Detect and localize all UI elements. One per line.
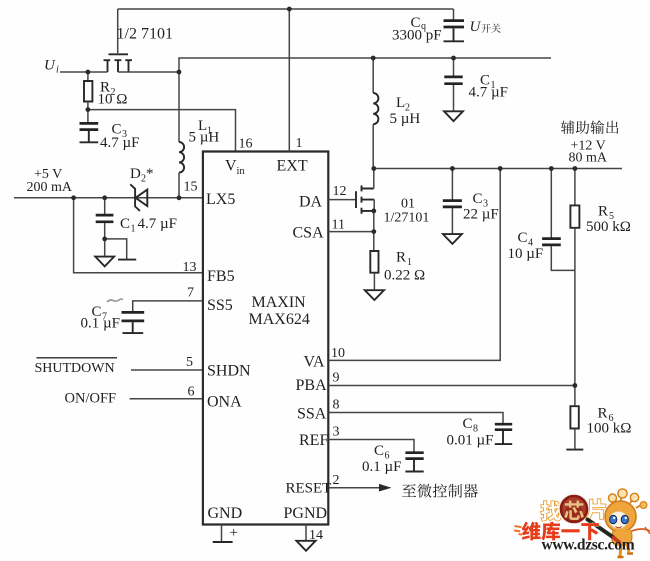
IC U1 MAX624 body xyxy=(203,152,328,525)
svg-text:10 Ω: 10 Ω xyxy=(98,92,128,108)
svg-text:U: U xyxy=(470,19,482,35)
wire L1 to LX5 node xyxy=(178,173,180,198)
svg-text:4.7 µF: 4.7 µF xyxy=(100,135,140,151)
wire C1 node to earth bar xyxy=(105,239,127,259)
svg-text:PGND: PGND xyxy=(284,505,328,522)
transistor 1/2 7101 source contact xyxy=(104,60,111,72)
wire Ui input xyxy=(60,71,108,73)
arrow to microcontroller xyxy=(379,484,392,492)
svg-text:3: 3 xyxy=(333,425,340,440)
transistor Q1 source contact xyxy=(362,208,374,214)
svg-text:MAX624: MAX624 xyxy=(249,311,310,328)
resistor R6 body xyxy=(570,406,578,428)
svg-text:11: 11 xyxy=(332,218,345,233)
capacitor C7 bottom terminal xyxy=(123,322,144,333)
mascot mouth xyxy=(616,527,622,528)
inductor L2 xyxy=(373,93,378,124)
wire pin9 PBA xyxy=(329,385,575,387)
transistor Q1 middle contact xyxy=(362,197,375,203)
node 7101 drain xyxy=(177,70,182,75)
svg-text:12: 12 xyxy=(333,184,347,199)
svg-text:GND: GND xyxy=(208,505,243,522)
svg-text:0.1 µF: 0.1 µF xyxy=(81,316,121,332)
transistor Q1 gate bar xyxy=(355,191,357,208)
svg-text:9: 9 xyxy=(333,371,340,386)
svg-text:www.dzsc.com: www.dzsc.com xyxy=(542,537,635,554)
svg-text:C: C xyxy=(463,416,473,432)
svg-text:22 µF: 22 µF xyxy=(463,207,499,223)
mascot face xyxy=(609,511,628,528)
svg-text:ONA: ONA xyxy=(207,394,242,411)
diode D2 cathode zener bar xyxy=(130,184,140,211)
svg-text:500 kΩ: 500 kΩ xyxy=(586,219,631,235)
ground triangle below PGND xyxy=(296,541,315,551)
svg-text:10 µF: 10 µF xyxy=(508,246,544,262)
svg-text:2: 2 xyxy=(333,473,340,488)
logo char zhao xyxy=(541,501,561,521)
svg-text:0.01 µF: 0.01 µF xyxy=(447,433,494,449)
logo char pian xyxy=(587,499,605,519)
svg-text:D: D xyxy=(130,166,141,182)
magnifier circle xyxy=(561,496,587,522)
ground triangle below R1 xyxy=(365,290,384,300)
wire C4 bottom to divider xyxy=(551,246,575,270)
capacitor C3 input bypass stub xyxy=(87,110,89,122)
wire ONA xyxy=(130,398,203,400)
svg-text:4.7 µF: 4.7 µF xyxy=(469,85,509,101)
ground triangle below C1 xyxy=(95,257,114,267)
capacitor C1 aux stub xyxy=(453,58,455,76)
earth bar near C1 xyxy=(118,259,136,261)
wire GND stub xyxy=(221,525,223,542)
svg-text:0.1 µF: 0.1 µF xyxy=(362,459,402,475)
svg-text:EXT: EXT xyxy=(277,158,308,175)
watermark dzsc logo xyxy=(514,489,650,557)
capacitor C4 stub xyxy=(550,169,552,238)
node C1 low top xyxy=(102,195,107,200)
svg-text:RESET: RESET xyxy=(286,481,332,497)
svg-text:*: * xyxy=(146,166,154,182)
wire VA riser xyxy=(329,169,501,361)
wire Q1 source down to CSA node xyxy=(373,211,375,251)
node C1 aux top xyxy=(451,56,456,61)
node rail C4 xyxy=(549,166,554,171)
svg-text:ON/OFF: ON/OFF xyxy=(65,391,117,407)
wire pin11 CSA xyxy=(329,231,374,233)
mascot head shell xyxy=(605,501,636,532)
node rail C3 xyxy=(450,166,455,171)
svg-text:15: 15 xyxy=(184,180,198,195)
capacitor C3 22uF stub xyxy=(451,169,453,200)
inductor L2 riser xyxy=(372,58,374,93)
transistor 1/2 7101 drain contact xyxy=(125,60,132,72)
svg-text:0.22 Ω: 0.22 Ω xyxy=(384,268,425,284)
svg-text:5: 5 xyxy=(186,355,193,370)
wire +12V output rail xyxy=(373,168,622,170)
svg-text:1: 1 xyxy=(296,136,303,151)
node Ui/R2 xyxy=(86,70,91,75)
wire C1 to ground node xyxy=(104,223,106,256)
capacitor C1 plates xyxy=(96,215,114,222)
wire pin8 SSA to C8 xyxy=(329,413,503,424)
label to microcontroller chinese xyxy=(402,484,478,498)
capacitor C3 22uF plates xyxy=(443,201,462,207)
logo text weiku red xyxy=(522,522,599,541)
mascot whip arm xyxy=(632,529,650,531)
capacitor C4 plates xyxy=(542,239,561,245)
svg-text:1: 1 xyxy=(131,224,136,235)
svg-text:PBA: PBA xyxy=(296,377,328,394)
wire C1 aux to ground xyxy=(453,85,455,111)
resistor R5 body xyxy=(570,205,579,227)
capacitor Cq bottom terminal to U switch xyxy=(444,28,465,41)
inductor L1 xyxy=(179,142,184,173)
svg-text:7: 7 xyxy=(187,286,194,301)
mascot foot xyxy=(620,544,629,556)
svg-text:8: 8 xyxy=(333,398,340,413)
node PBA divider xyxy=(573,383,578,388)
capacitor C1 aux plates xyxy=(444,77,462,84)
capacitor Cq drop from EXT line xyxy=(453,9,455,20)
svg-text:REF: REF xyxy=(299,432,328,449)
capacitor Cq plates xyxy=(444,21,465,27)
mascot antenna stalks xyxy=(610,496,641,508)
svg-text:SHDN: SHDN xyxy=(207,363,251,380)
svg-text:1/2 7101: 1/2 7101 xyxy=(117,26,173,43)
wire pin3 REF to C6 xyxy=(329,440,414,452)
wire Q1 body tie xyxy=(373,200,375,211)
wire FB5 riser xyxy=(74,198,203,273)
svg-text:4.7 µF: 4.7 µF xyxy=(138,216,178,232)
svg-text:SHUTDOWN: SHUTDOWN xyxy=(35,361,115,376)
wire R2 bottom xyxy=(87,102,89,110)
wire node down to L1 xyxy=(178,72,180,142)
svg-text:R: R xyxy=(396,250,406,266)
speed dashes left of weiku xyxy=(514,526,522,535)
magnifier outer rim xyxy=(560,495,588,523)
svg-text:1/27101: 1/27101 xyxy=(384,211,430,226)
svg-text:5 µH: 5 µH xyxy=(390,111,421,127)
svg-text:6: 6 xyxy=(188,385,195,400)
wire top EXT drive rail xyxy=(118,8,454,10)
node R2/Vin xyxy=(86,107,91,112)
svg-text:in: in xyxy=(237,166,246,177)
wire gate riser of 7101 xyxy=(117,9,119,53)
svg-text:100 kΩ: 100 kΩ xyxy=(587,421,632,437)
magnifier handle xyxy=(588,520,614,538)
wire EXT pin1 riser xyxy=(288,9,290,152)
svg-text:1: 1 xyxy=(407,257,412,268)
transistor 1/2 7101 gate bar xyxy=(109,53,129,55)
svg-text:C: C xyxy=(473,191,483,207)
wire 7101 source to node xyxy=(118,71,179,73)
wire divider mid xyxy=(574,228,576,406)
svg-text:10: 10 xyxy=(331,346,345,361)
capacitor C6 plates xyxy=(405,453,423,459)
transistor Q1 drain contact xyxy=(362,185,374,191)
svg-text:C: C xyxy=(374,443,384,459)
svg-text:V: V xyxy=(225,158,237,175)
capacitor C6 bottom terminal xyxy=(405,460,423,472)
svg-text:R: R xyxy=(598,406,608,422)
capacitor C8 plates xyxy=(495,424,512,430)
node Q1 source xyxy=(371,209,376,214)
svg-text:CSA: CSA xyxy=(293,225,325,242)
wire SS5 to C7 xyxy=(133,301,203,312)
ground triangle below C1 aux xyxy=(444,111,463,121)
resistor R2 body xyxy=(84,81,92,102)
wire node up to switch line xyxy=(179,58,551,72)
wire L2 to rail xyxy=(372,124,374,168)
node top EXT/Cq junction xyxy=(287,7,292,12)
svg-text:5 µH: 5 µH xyxy=(189,130,220,146)
svg-text:C: C xyxy=(518,230,528,246)
wire R2 stub from Ui node xyxy=(87,72,89,81)
node rail VA xyxy=(498,166,503,171)
wire R6 to earth xyxy=(574,429,576,449)
node L2 top xyxy=(371,56,376,61)
diode D2 triangle xyxy=(136,190,148,206)
svg-text:VA: VA xyxy=(304,354,325,371)
svg-text:L: L xyxy=(396,95,405,111)
transistor 1/2 7101 middle contact xyxy=(115,60,122,72)
svg-text:SS5: SS5 xyxy=(207,297,233,314)
capacitor C1 low side stub xyxy=(104,198,106,214)
earth bar below R6 xyxy=(566,449,583,451)
resistor R1 body xyxy=(370,251,378,273)
svg-text:U: U xyxy=(44,58,56,74)
capacitor C8 bottom terminal xyxy=(495,431,512,444)
wire R5 top stub xyxy=(574,169,576,206)
svg-text:SSA: SSA xyxy=(297,406,327,423)
capacitor C3 plates xyxy=(80,123,99,129)
handle red tail xyxy=(614,538,620,543)
wire PGND stub xyxy=(305,525,307,541)
svg-text:i: i xyxy=(56,65,59,76)
svg-text:C: C xyxy=(120,216,130,232)
ground triangle below C3 22uF xyxy=(443,234,462,244)
earth bar below GND xyxy=(213,541,233,543)
node rail R5 xyxy=(573,166,578,171)
svg-text:+: + xyxy=(230,525,238,541)
svg-text:01: 01 xyxy=(401,197,415,212)
node C1 low bottom xyxy=(102,237,107,242)
wire R2 node to pin16 xyxy=(88,110,236,152)
svg-text:14: 14 xyxy=(309,528,323,543)
wire Q1 drain to +12V rail xyxy=(373,169,375,189)
wire pin2 RESET xyxy=(329,487,380,489)
svg-text:80 mA: 80 mA xyxy=(569,151,608,166)
wire C3 22uF to ground xyxy=(451,208,453,233)
svg-text:MAXIN: MAXIN xyxy=(252,294,307,311)
overline SHUTDOWN xyxy=(37,357,118,359)
svg-text:16: 16 xyxy=(239,137,253,152)
mascot body xyxy=(612,530,632,545)
svg-text:13: 13 xyxy=(183,260,197,275)
svg-text:FB5: FB5 xyxy=(207,268,235,285)
logo char xin xyxy=(564,501,584,520)
node LX5 xyxy=(177,195,182,200)
wire +5V input xyxy=(14,197,203,199)
svg-text:R: R xyxy=(598,204,608,220)
svg-text:DA: DA xyxy=(299,194,323,211)
capacitor C3 bottom terminal xyxy=(80,131,99,142)
label aux output chinese xyxy=(561,120,618,134)
node rail Q1 drain xyxy=(371,166,376,171)
wire R1 to ground xyxy=(373,273,375,290)
capacitor C7 plates xyxy=(122,312,145,321)
smudge artifact xyxy=(107,299,123,302)
svg-text:LX5: LX5 xyxy=(206,191,235,208)
wire SHDN xyxy=(131,369,203,371)
node FB5 tap xyxy=(71,195,76,200)
mascot antenna bulbs xyxy=(609,494,617,502)
wire pin12 DA to Q1 gate xyxy=(329,199,355,201)
mascot eyes xyxy=(610,515,617,524)
svg-text:200 mA: 200 mA xyxy=(27,180,73,195)
node CSA xyxy=(371,229,376,234)
svg-text:3300 pF: 3300 pF xyxy=(392,28,442,44)
